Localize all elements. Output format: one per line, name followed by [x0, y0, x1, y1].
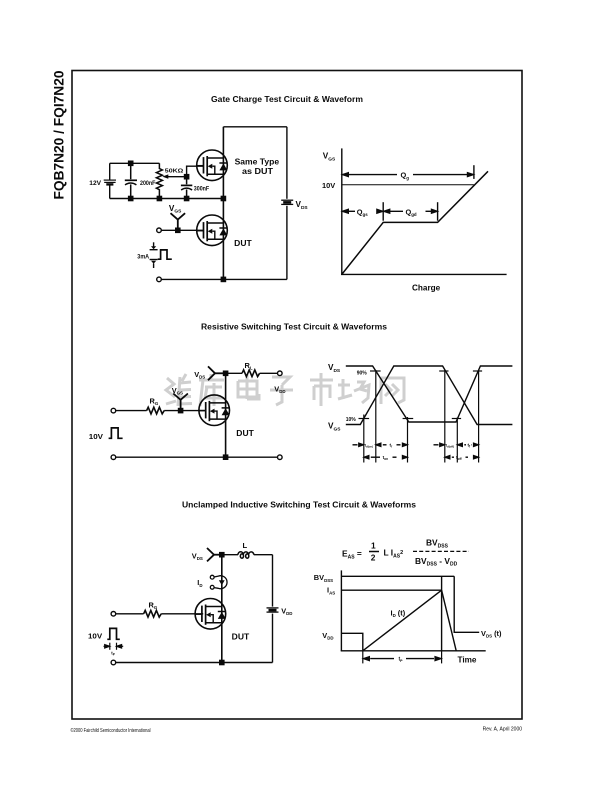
- arrow into t_d(off): [434, 444, 439, 446]
- curve: gate charge waveform: [342, 171, 488, 274]
- svg-text:200nF: 200nF: [140, 180, 156, 187]
- node: source / bottom rail: [224, 455, 228, 459]
- arrow t_r: [376, 443, 381, 446]
- node: source / bottom rail: [220, 660, 224, 664]
- 网: [381, 378, 404, 404]
- line: 10V level: [342, 184, 474, 186]
- wire: node to R_L: [226, 372, 242, 374]
- probe V_GS: [171, 213, 186, 230]
- tick Q_gs end: [382, 202, 384, 221]
- level line BV_DSS: [341, 575, 454, 577]
- terminal: V_DD: [278, 371, 283, 376]
- svg-text:FQB7N20 / FQI7N20: FQB7N20 / FQI7N20: [50, 70, 66, 199]
- svg-text:90%: 90%: [357, 370, 368, 376]
- resistor R_G: [147, 407, 165, 414]
- node: bus / bottom rail junction: [221, 277, 225, 281]
- svg-text:td(on): td(on): [365, 443, 373, 448]
- probe V_DS (horizontal): [207, 548, 222, 561]
- 电: [238, 374, 259, 399]
- ramp I_D(t): [363, 590, 442, 651]
- svg-text:Resistive Switching Test Circu: Resistive Switching Test Circuit & Wavef…: [201, 323, 388, 332]
- node: drain: [224, 371, 228, 375]
- t_P ticks below axis: [363, 651, 442, 664]
- transistor DUT: [199, 395, 230, 426]
- wire: top rail of gate-charge loop: [223, 126, 287, 128]
- axis: x (Time): [341, 650, 486, 652]
- capacitor 200nF: [125, 163, 137, 198]
- svg-text:©2000 Fairchild Semiconductor: ©2000 Fairchild Semiconductor Internatio…: [71, 727, 151, 734]
- arrow Q_g: [343, 174, 397, 176]
- svg-text:50KΩ: 50KΩ: [165, 169, 184, 175]
- tick Qg end: [473, 165, 475, 179]
- svg-text:td(off): td(off): [446, 443, 454, 448]
- svg-text:10V: 10V: [88, 631, 102, 640]
- timing tick verticals: [364, 370, 479, 463]
- wire: gate lead: [116, 613, 144, 615]
- wire: center bus (drain-source column): [222, 127, 224, 280]
- svg-text:Same Type: Same Type: [235, 158, 280, 167]
- svg-text:Gate Charge Test Circuit & Wav: Gate Charge Test Circuit & Waveform: [211, 95, 363, 104]
- svg-text:12V: 12V: [89, 180, 102, 187]
- svg-text:2: 2: [371, 553, 376, 563]
- svg-text:10V: 10V: [89, 432, 103, 441]
- wire: gate lead: [116, 410, 147, 412]
- formula E_AS = 1/2 L I_AS^2 BV_DSS/(BV_DSS-V_DD): [342, 538, 458, 568]
- svg-text:VDS (t): VDS (t): [481, 629, 502, 639]
- probe V_GS: [173, 394, 188, 411]
- svg-text:1: 1: [371, 541, 376, 551]
- 场: [338, 379, 369, 403]
- 子: [270, 377, 293, 405]
- wire: bottom rail: [161, 278, 287, 280]
- level line V_DD + step down: [341, 633, 362, 651]
- potentiometer 50KΩ (vertical): [156, 163, 162, 198]
- 90% level ticks: [370, 370, 482, 372]
- terminal: bottom left: [157, 277, 162, 282]
- svg-text:Unclamped Inductive Switching: Unclamped Inductive Switching Test Circu…: [182, 501, 417, 510]
- wire: node to inductor: [222, 554, 238, 556]
- svg-text:10%: 10%: [346, 417, 357, 423]
- terminal: gate input: [157, 228, 162, 233]
- svg-text:as DUT: as DUT: [242, 167, 273, 176]
- arrow Q_gs: [343, 210, 355, 212]
- wire: left box left edge: [109, 163, 111, 179]
- wire: gate lead of DUT: [161, 229, 203, 231]
- fraction bar (dashed): [413, 550, 469, 552]
- battery V_DS supply: [281, 200, 293, 204]
- wire: bottom rail: [116, 662, 273, 664]
- transistor DUT: [195, 599, 226, 630]
- arrow t_f: [458, 443, 463, 446]
- node dot 300nF bottom / bus: [185, 196, 189, 200]
- axis: y: [340, 570, 342, 650]
- svg-text:L: L: [243, 541, 248, 550]
- svg-text:Time: Time: [458, 655, 477, 664]
- battery V_DD supply: [267, 608, 279, 612]
- t_P width marks: [104, 643, 124, 650]
- 维: [166, 374, 192, 406]
- capacitor 300nF: [181, 177, 192, 199]
- wire: inductor to right edge, down: [254, 554, 273, 556]
- tick Q_gd end: [437, 202, 439, 221]
- V_DS pulse drop to V_DD: [454, 576, 479, 632]
- wire: drain-source bus through DUT: [221, 555, 223, 663]
- wire: right rail: [286, 127, 288, 199]
- transistor DUT (lower mosfet): [197, 215, 228, 246]
- pulse symbol (3mA drive): [158, 250, 172, 259]
- trace V_GS: [346, 366, 513, 425]
- terminal: gate input: [111, 408, 116, 413]
- potentiometer wiper arrow: [162, 174, 168, 178]
- probe V_DS (horizontal): [208, 366, 226, 380]
- inductor L: [238, 552, 254, 558]
- vertical at avalanche start: [441, 576, 443, 651]
- node dot pot bottom: [157, 196, 161, 200]
- fall of I_D: [442, 590, 457, 651]
- 市: [310, 373, 333, 406]
- current source 3mA arrows: [150, 242, 158, 268]
- node: drain: [220, 553, 224, 557]
- svg-text:DUT: DUT: [234, 239, 252, 248]
- resistor R_G: [144, 610, 162, 617]
- pulse symbol: [107, 628, 120, 639]
- arrow Q_gd: [384, 210, 403, 212]
- 10% level ticks: [359, 418, 462, 420]
- axis: V_GS vertical: [341, 148, 343, 274]
- svg-text:DUT: DUT: [236, 429, 254, 438]
- trace V_DS: [346, 366, 513, 422]
- node dot wiper/300nF: [185, 175, 189, 179]
- fraction bar 1/2: [369, 551, 379, 553]
- svg-text:DUT: DUT: [232, 632, 250, 641]
- transistor: same type as DUT (upper mosfet): [197, 150, 228, 181]
- battery 12V: [104, 180, 116, 184]
- current probe I_D: [210, 575, 227, 589]
- svg-text:3mA: 3mA: [137, 253, 149, 260]
- arrow t_P: [364, 657, 370, 661]
- wire: bottom rail: [116, 456, 278, 458]
- arrow t_on: [364, 456, 369, 459]
- resistor R_L: [242, 370, 260, 377]
- wire: drain-source bus through DUT: [225, 373, 227, 457]
- 库: [199, 374, 224, 406]
- level line I_AS: [341, 589, 441, 591]
- svg-text:Rev. A, April 2000: Rev. A, April 2000: [483, 727, 523, 733]
- svg-text:300nF: 300nF: [194, 186, 210, 193]
- svg-text:Charge: Charge: [412, 284, 441, 293]
- wire: left box top: [110, 162, 160, 164]
- svg-text:10V: 10V: [322, 181, 335, 190]
- arrow into t_d(on): [353, 444, 358, 446]
- axis: charge horizontal: [341, 273, 507, 275]
- node dots 200nF: [129, 161, 133, 165]
- wire: wiper riser to gate of upper mosfet: [187, 166, 204, 177]
- wire: R_L to terminal: [260, 372, 278, 374]
- terminal: gate input: [111, 612, 116, 617]
- pulse symbol: [109, 428, 123, 438]
- arrow t_off: [445, 456, 450, 459]
- wire: left box bottom (to bus): [110, 198, 224, 200]
